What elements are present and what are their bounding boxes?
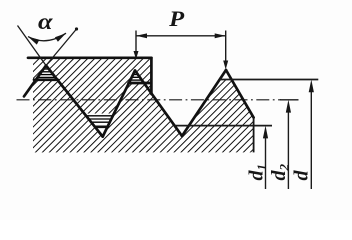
svg-text:d: d (291, 170, 313, 181)
svg-text:P: P (168, 6, 184, 31)
svg-text:α: α (38, 9, 54, 34)
